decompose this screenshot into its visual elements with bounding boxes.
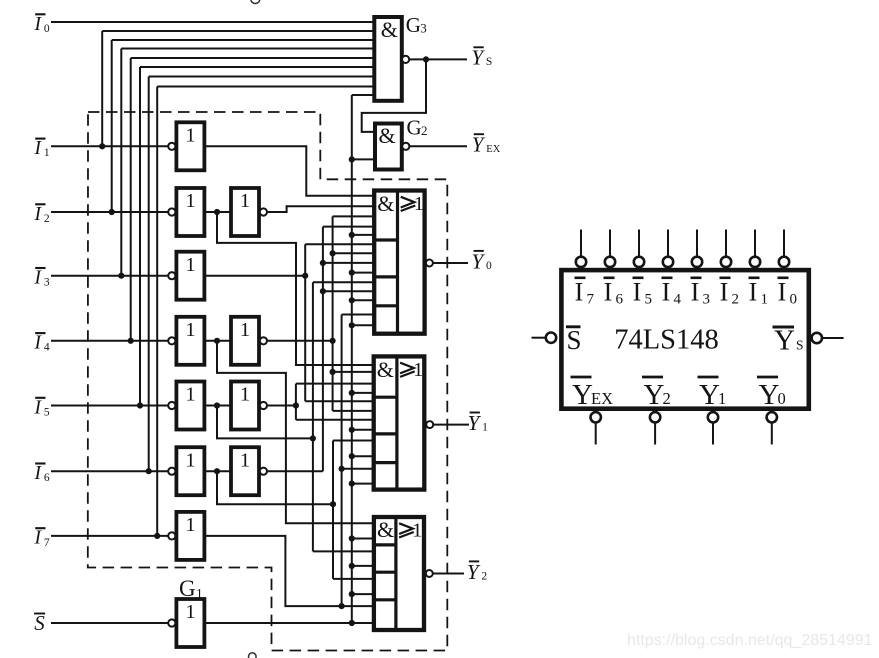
dashed boundary box [88, 112, 448, 651]
wire I6 stub Y0 low [323, 290, 374, 292]
svg-text:1: 1 [185, 254, 195, 276]
NAND gate G3 box [374, 17, 402, 101]
svg-text:3: 3 [44, 277, 50, 289]
inverter I6 (col2) output bubble [260, 468, 267, 475]
wire I5 double-inverted output [267, 405, 296, 407]
svg-text:1: 1 [185, 601, 195, 623]
svg-text:I: I [604, 278, 613, 307]
inverter I2 (col1) input bubble [168, 208, 175, 215]
IC pin S bubble [546, 333, 556, 343]
inverter G1 box [176, 599, 204, 647]
inverter I1 (col1) input bubble [168, 143, 175, 150]
junction I3 feedback tap [118, 273, 124, 279]
svg-text:I: I [34, 333, 43, 354]
AND-OR gate U-Y0 outer box [374, 191, 424, 334]
junction I6 feedback tap [146, 468, 152, 474]
svg-text:74LS148: 74LS148 [614, 325, 719, 356]
IC pin I7 bubble [576, 257, 586, 267]
IC pin I5 top lead [638, 230, 640, 257]
svg-text:Y: Y [644, 379, 665, 411]
svg-text:2: 2 [732, 292, 740, 308]
junction I6 inverted branch [214, 468, 220, 474]
wire feedback vertical I1 [101, 31, 103, 146]
junction I3 track [302, 273, 308, 279]
IC pin I6 top lead [609, 230, 611, 257]
wire I5 track vertical [295, 384, 297, 420]
wire strobe stub Y2b [352, 565, 374, 567]
svg-text:Y: Y [472, 133, 486, 157]
wire I1 inverted to Y0 [204, 146, 374, 195]
wire strobe vertical [351, 95, 353, 623]
svg-text:I: I [34, 463, 43, 484]
wire I4 track vertical [332, 216, 334, 411]
wire feedback vertical I2 [111, 40, 113, 212]
gate U-Y2 AND/OR divider [394, 517, 397, 630]
NAND gate G2 box [375, 124, 402, 170]
svg-text:5: 5 [44, 406, 50, 418]
gate G2 output bubble [402, 143, 409, 150]
svg-text:I: I [575, 278, 584, 307]
wire G1 output to Y2 [204, 622, 374, 624]
inverter I2 (col1) box [176, 188, 204, 236]
svg-text:1: 1 [761, 292, 769, 308]
junction I4 feedback tap [128, 338, 134, 344]
gate U-Y2 AND subdividers [374, 543, 396, 546]
inverter I3 (col1) input bubble [168, 272, 175, 279]
IC pin I0 top lead [783, 230, 785, 257]
inverter I7 (col1) box [176, 512, 204, 560]
svg-text:&: & [377, 191, 394, 216]
inverter I4 (col2) box [231, 317, 259, 365]
inverter I2 (col2) output bubble [260, 208, 267, 215]
wire feedback bus I6 to G3 [149, 76, 375, 78]
junction I4 inverted branch [214, 338, 220, 344]
svg-text:G: G [179, 576, 196, 601]
svg-text:4: 4 [674, 292, 682, 308]
wire input I1 row [51, 145, 168, 147]
wire I7 stub Y2 [342, 605, 374, 607]
svg-text:Y: Y [759, 379, 780, 411]
wire feedback bus I4 to G3 [131, 57, 375, 59]
junction strobe tap Y0c [349, 297, 355, 303]
gate U-Y0 AND subdividers [374, 238, 397, 241]
svg-text:2: 2 [421, 123, 428, 138]
svg-text:&: & [381, 17, 398, 42]
wire input I2 row [51, 211, 168, 213]
IC 74LS148 body [561, 270, 808, 409]
wire input I0 row to G3 [51, 21, 374, 23]
AND-OR gate U-Y1 outer box [374, 356, 425, 489]
wire feedback vertical I6 [148, 77, 150, 472]
wire Y0 output [433, 262, 468, 264]
junction I7 tap Y1 [339, 466, 345, 472]
IC pin I0 bubble [779, 257, 789, 267]
svg-text:I: I [749, 278, 758, 307]
junction I4 track feed [330, 338, 336, 344]
top partial circle decoration [251, 0, 260, 4]
wire I7 stub Y1 [342, 468, 374, 470]
svg-text:1: 1 [240, 384, 250, 406]
svg-text:1: 1 [718, 389, 726, 408]
wire strobe stub Y1d [352, 483, 374, 485]
junction strobe at G1 output [349, 620, 355, 626]
IC pin Y2 lead [654, 422, 656, 444]
wire I6 stub Y1 [333, 440, 374, 442]
wire I6 double-inverted output [267, 470, 323, 472]
gate U-Y0 label >=1 [401, 197, 415, 208]
svg-text:https://blog.csdn.net/qq_28514: https://blog.csdn.net/qq_28514991 [627, 632, 873, 649]
wire G2 output YEX [409, 145, 467, 147]
inverter I3 (col1) box [176, 252, 204, 300]
gate U-Y2 label >=1 [399, 523, 413, 534]
svg-text:3: 3 [703, 292, 711, 308]
inverter I6 (col1) box [176, 447, 204, 495]
svg-text:I: I [720, 278, 729, 307]
wire feedback vertical I7 [156, 87, 158, 536]
AND-OR gate U-Y2 outer box [374, 517, 424, 630]
svg-text:5: 5 [645, 292, 653, 308]
wire strobe stub Y1b [352, 429, 374, 431]
wire strobe into G3 [352, 94, 375, 96]
svg-text:1: 1 [240, 190, 250, 212]
wire input I7 row [51, 535, 168, 537]
svg-text:&: & [379, 123, 396, 148]
wire Y2 output [433, 573, 464, 575]
svg-text:1: 1 [185, 190, 195, 212]
wire input S row [51, 622, 168, 624]
junction I6 tap Y0 mid [320, 260, 326, 266]
bottom partial circle decoration [249, 653, 257, 658]
svg-text:2: 2 [663, 389, 671, 408]
junction strobe tap Y1a [349, 390, 355, 396]
IC pin I4 top lead [667, 230, 669, 257]
wire input I3 row [51, 275, 168, 277]
svg-text:0: 0 [790, 292, 798, 308]
wire I6 single track vertical [332, 441, 334, 579]
junction YS branch [423, 56, 429, 62]
gate U-Y1 AND subdividers [374, 396, 397, 399]
svg-text:0: 0 [486, 260, 492, 272]
wire strobe stub Y2c [352, 593, 374, 595]
svg-text:7: 7 [44, 537, 50, 549]
wire I4 stub Y1 top [333, 371, 374, 373]
wire I3 stub to Y1 [305, 400, 374, 402]
wire I6 track vertical [322, 227, 324, 472]
svg-text:Y: Y [472, 249, 486, 273]
svg-text:Y: Y [572, 379, 593, 411]
svg-text:1: 1 [185, 449, 195, 471]
svg-text:EX: EX [591, 389, 613, 408]
gate U-Y2 output bubble [426, 570, 433, 577]
inverter I4 (col1) box [176, 317, 204, 365]
junction strobe tap Y2c [349, 591, 355, 597]
gate U-Y1 output bubble [426, 421, 433, 428]
inverter I6 (col2) box [231, 447, 259, 495]
junction strobe tap G2 [349, 156, 355, 162]
IC pin Y0 bubble [767, 412, 777, 422]
svg-text:I: I [633, 278, 642, 307]
gate U-Y1 AND/OR divider [395, 356, 398, 489]
svg-text:6: 6 [616, 292, 624, 308]
wire feedback bus I5 to G3 [140, 66, 374, 68]
junction I1 feedback tap [99, 143, 105, 149]
junction I6 single track [330, 501, 336, 507]
svg-text:7: 7 [587, 292, 595, 308]
wire I5 single-inverted branch [217, 406, 313, 439]
svg-text:Y: Y [774, 325, 795, 357]
wire input I4 row [51, 340, 168, 342]
svg-text:Y: Y [468, 411, 482, 435]
svg-text:1: 1 [44, 147, 50, 159]
svg-text:1: 1 [185, 514, 195, 536]
IC pin I2 bubble [721, 257, 731, 267]
wire I2 double-inverted to Y0 [267, 206, 374, 212]
wire feedback vertical I3 [120, 49, 122, 276]
junction I5 inverted branch [214, 402, 220, 408]
inverter I7 (col1) input bubble [168, 532, 175, 539]
svg-text:I: I [34, 138, 43, 159]
junction strobe tap Y1b [349, 427, 355, 433]
svg-text:2: 2 [481, 570, 487, 582]
svg-text:1: 1 [240, 449, 250, 471]
svg-text:1: 1 [414, 193, 424, 215]
IC pin Y1 bubble [708, 412, 718, 422]
svg-text:I: I [34, 14, 43, 35]
wire strobe stub Y1c [352, 455, 374, 457]
svg-text:0: 0 [44, 23, 50, 35]
svg-text:1: 1 [196, 586, 203, 601]
wire strobe stub Y1a [352, 392, 374, 394]
junction I4 tap Y1 [330, 369, 336, 375]
junction strobe tap Y0d [349, 322, 355, 328]
junction I5 feedback tap [137, 402, 143, 408]
svg-text:1: 1 [185, 384, 195, 406]
wire I6 stub Y0 top [323, 226, 374, 228]
IC pin I1 bubble [750, 257, 760, 267]
IC pin I3 bubble [692, 257, 702, 267]
svg-text:I: I [34, 397, 43, 418]
wire feedback bus I2 to G3 [112, 39, 375, 41]
svg-text:&: & [377, 357, 394, 382]
svg-text:1: 1 [482, 421, 488, 433]
svg-text:2: 2 [44, 213, 50, 225]
svg-text:4: 4 [44, 342, 50, 354]
svg-text:1: 1 [240, 319, 250, 341]
wire feedback bus I3 to G3 [121, 48, 374, 50]
IC pin Y2 bubble [650, 412, 660, 422]
IC pin I4 bubble [663, 257, 673, 267]
wire strobe stub Y0a [352, 234, 374, 236]
junction strobe tap Y1d [349, 481, 355, 487]
svg-text:I: I [691, 278, 700, 307]
wire I3 track vertical [304, 244, 306, 401]
wire I6 inv1 to inv2 [204, 470, 231, 472]
junction strobe tap Y2a [349, 535, 355, 541]
wire I4 stub Y0 top [333, 215, 375, 217]
wire I7 stub Y0 [342, 314, 375, 316]
wire I5 stub Y2 [313, 550, 374, 552]
IC pin YEX lead [595, 422, 597, 444]
svg-text:0: 0 [778, 389, 786, 408]
junction I2 feedback tap [109, 209, 115, 215]
inverter I5 (col1) input bubble [168, 402, 175, 409]
IC pin I2 top lead [725, 230, 727, 257]
wire strobe stub Y0c [352, 299, 374, 301]
wire strobe stub Y2a [352, 538, 374, 540]
junction strobe tap Y1c [349, 453, 355, 459]
svg-text:I: I [34, 268, 43, 289]
svg-text:I: I [34, 204, 43, 225]
wire strobe stub Y0d [352, 324, 374, 326]
IC pin S lead [532, 337, 546, 339]
svg-text:G: G [407, 116, 422, 140]
svg-text:1: 1 [413, 359, 423, 381]
IC pin YS bubble [812, 333, 822, 343]
wire G3 output YS [409, 58, 467, 60]
inverter I1 (col1) box [176, 122, 204, 170]
wire I2 inv1 to inv2 [204, 211, 231, 213]
wire input I6 row [51, 470, 168, 472]
svg-text:S: S [567, 325, 582, 355]
junction I5 track feed [293, 402, 299, 408]
wire I4 double-inverted output [267, 340, 333, 342]
junction I7 track [339, 603, 345, 609]
IC pin I6 bubble [605, 257, 615, 267]
wire I6 stub Y0 mid [323, 262, 374, 264]
wire I3 stub to Y0 [305, 243, 374, 245]
wire feedback vertical I4 [130, 58, 132, 341]
inverter I4 (col2) output bubble [260, 337, 267, 344]
junction strobe tap Y0b [349, 270, 355, 276]
gate U-Y0 output bubble [426, 260, 433, 267]
wire I6 stub Y2 [333, 578, 374, 580]
inverter I5 (col1) box [176, 382, 204, 430]
wire input I5 row [51, 405, 168, 407]
gate U-Y1 label >=1 [400, 363, 414, 374]
wire I5 inv1 to inv2 [204, 405, 231, 407]
IC pin Y0 lead [771, 422, 773, 444]
junction I2 inverted branch [214, 209, 220, 215]
svg-text:1: 1 [185, 125, 195, 147]
wire I4 stub Y1 bottom [333, 410, 374, 412]
IC pin I7 top lead [580, 230, 582, 257]
svg-text:G: G [406, 13, 421, 37]
junction I5 single track [310, 435, 316, 441]
wire I5 single track vertical [312, 282, 314, 551]
svg-text:I: I [34, 528, 43, 549]
inverter I4 (col1) input bubble [168, 337, 175, 344]
inverter I6 (col1) input bubble [168, 468, 175, 475]
IC pin I5 bubble [634, 257, 644, 267]
junction I7 feedback tap [154, 533, 160, 539]
wire strobe stub G2 [352, 158, 375, 160]
wire I3 inverted output [204, 275, 305, 277]
gate G3 output bubble [402, 56, 409, 63]
IC pin I1 top lead [754, 230, 756, 257]
svg-text:S: S [34, 611, 45, 635]
wire I7 track vertical [341, 315, 343, 607]
svg-text:3: 3 [420, 21, 427, 36]
svg-text:1: 1 [412, 520, 422, 542]
wire I4 stub Y0 mid [333, 252, 375, 254]
inverter G1 input bubble [168, 619, 175, 626]
wire I5 stub Y0 [313, 281, 374, 283]
svg-text:Y: Y [467, 560, 481, 584]
wire I7 inverted output [204, 536, 341, 606]
wire feedback bus I1 to G3 [102, 30, 374, 32]
gate U-Y0 AND/OR divider [396, 191, 399, 334]
wire I5 stub Y1 bottom [296, 419, 374, 421]
IC pin Y1 lead [712, 422, 714, 444]
IC pin YS lead [823, 337, 844, 339]
wire I4 inv1 to inv2 [204, 340, 231, 342]
junction I4 tap Y0 [330, 250, 336, 256]
wire I4 single-inverted branch [217, 341, 374, 524]
svg-text:6: 6 [44, 472, 50, 484]
inverter I5 (col2) output bubble [260, 402, 267, 409]
junction strobe tap Y2b [349, 563, 355, 569]
wire I6 single-inverted branch [217, 471, 333, 504]
wire Y1 output [433, 424, 469, 426]
svg-text:1: 1 [185, 319, 195, 341]
svg-text:S: S [796, 338, 804, 353]
svg-text:EX: EX [486, 144, 500, 155]
wire strobe stub Y0b [352, 272, 374, 274]
svg-text:I: I [662, 278, 671, 307]
IC pin I3 top lead [696, 230, 698, 257]
wire I5 stub Y1 top [296, 383, 374, 385]
wire feedback vertical I5 [139, 67, 141, 406]
svg-text:Y: Y [471, 46, 485, 70]
wire YS to G2 step [362, 59, 426, 131]
junction I6 tap Y0 low [320, 288, 326, 294]
svg-text:I: I [778, 278, 787, 307]
inverter I2 (col2) box [231, 188, 259, 236]
svg-text:S: S [486, 56, 492, 68]
IC pin YEX bubble [591, 412, 601, 422]
junction strobe tap Y0a [349, 232, 355, 238]
wire I2 inverted branch down [217, 212, 374, 365]
inverter I5 (col2) box [231, 382, 259, 430]
svg-text:Y: Y [699, 379, 720, 411]
wire feedback bus I7 to G3 [157, 86, 374, 88]
svg-text:&: & [377, 517, 394, 542]
